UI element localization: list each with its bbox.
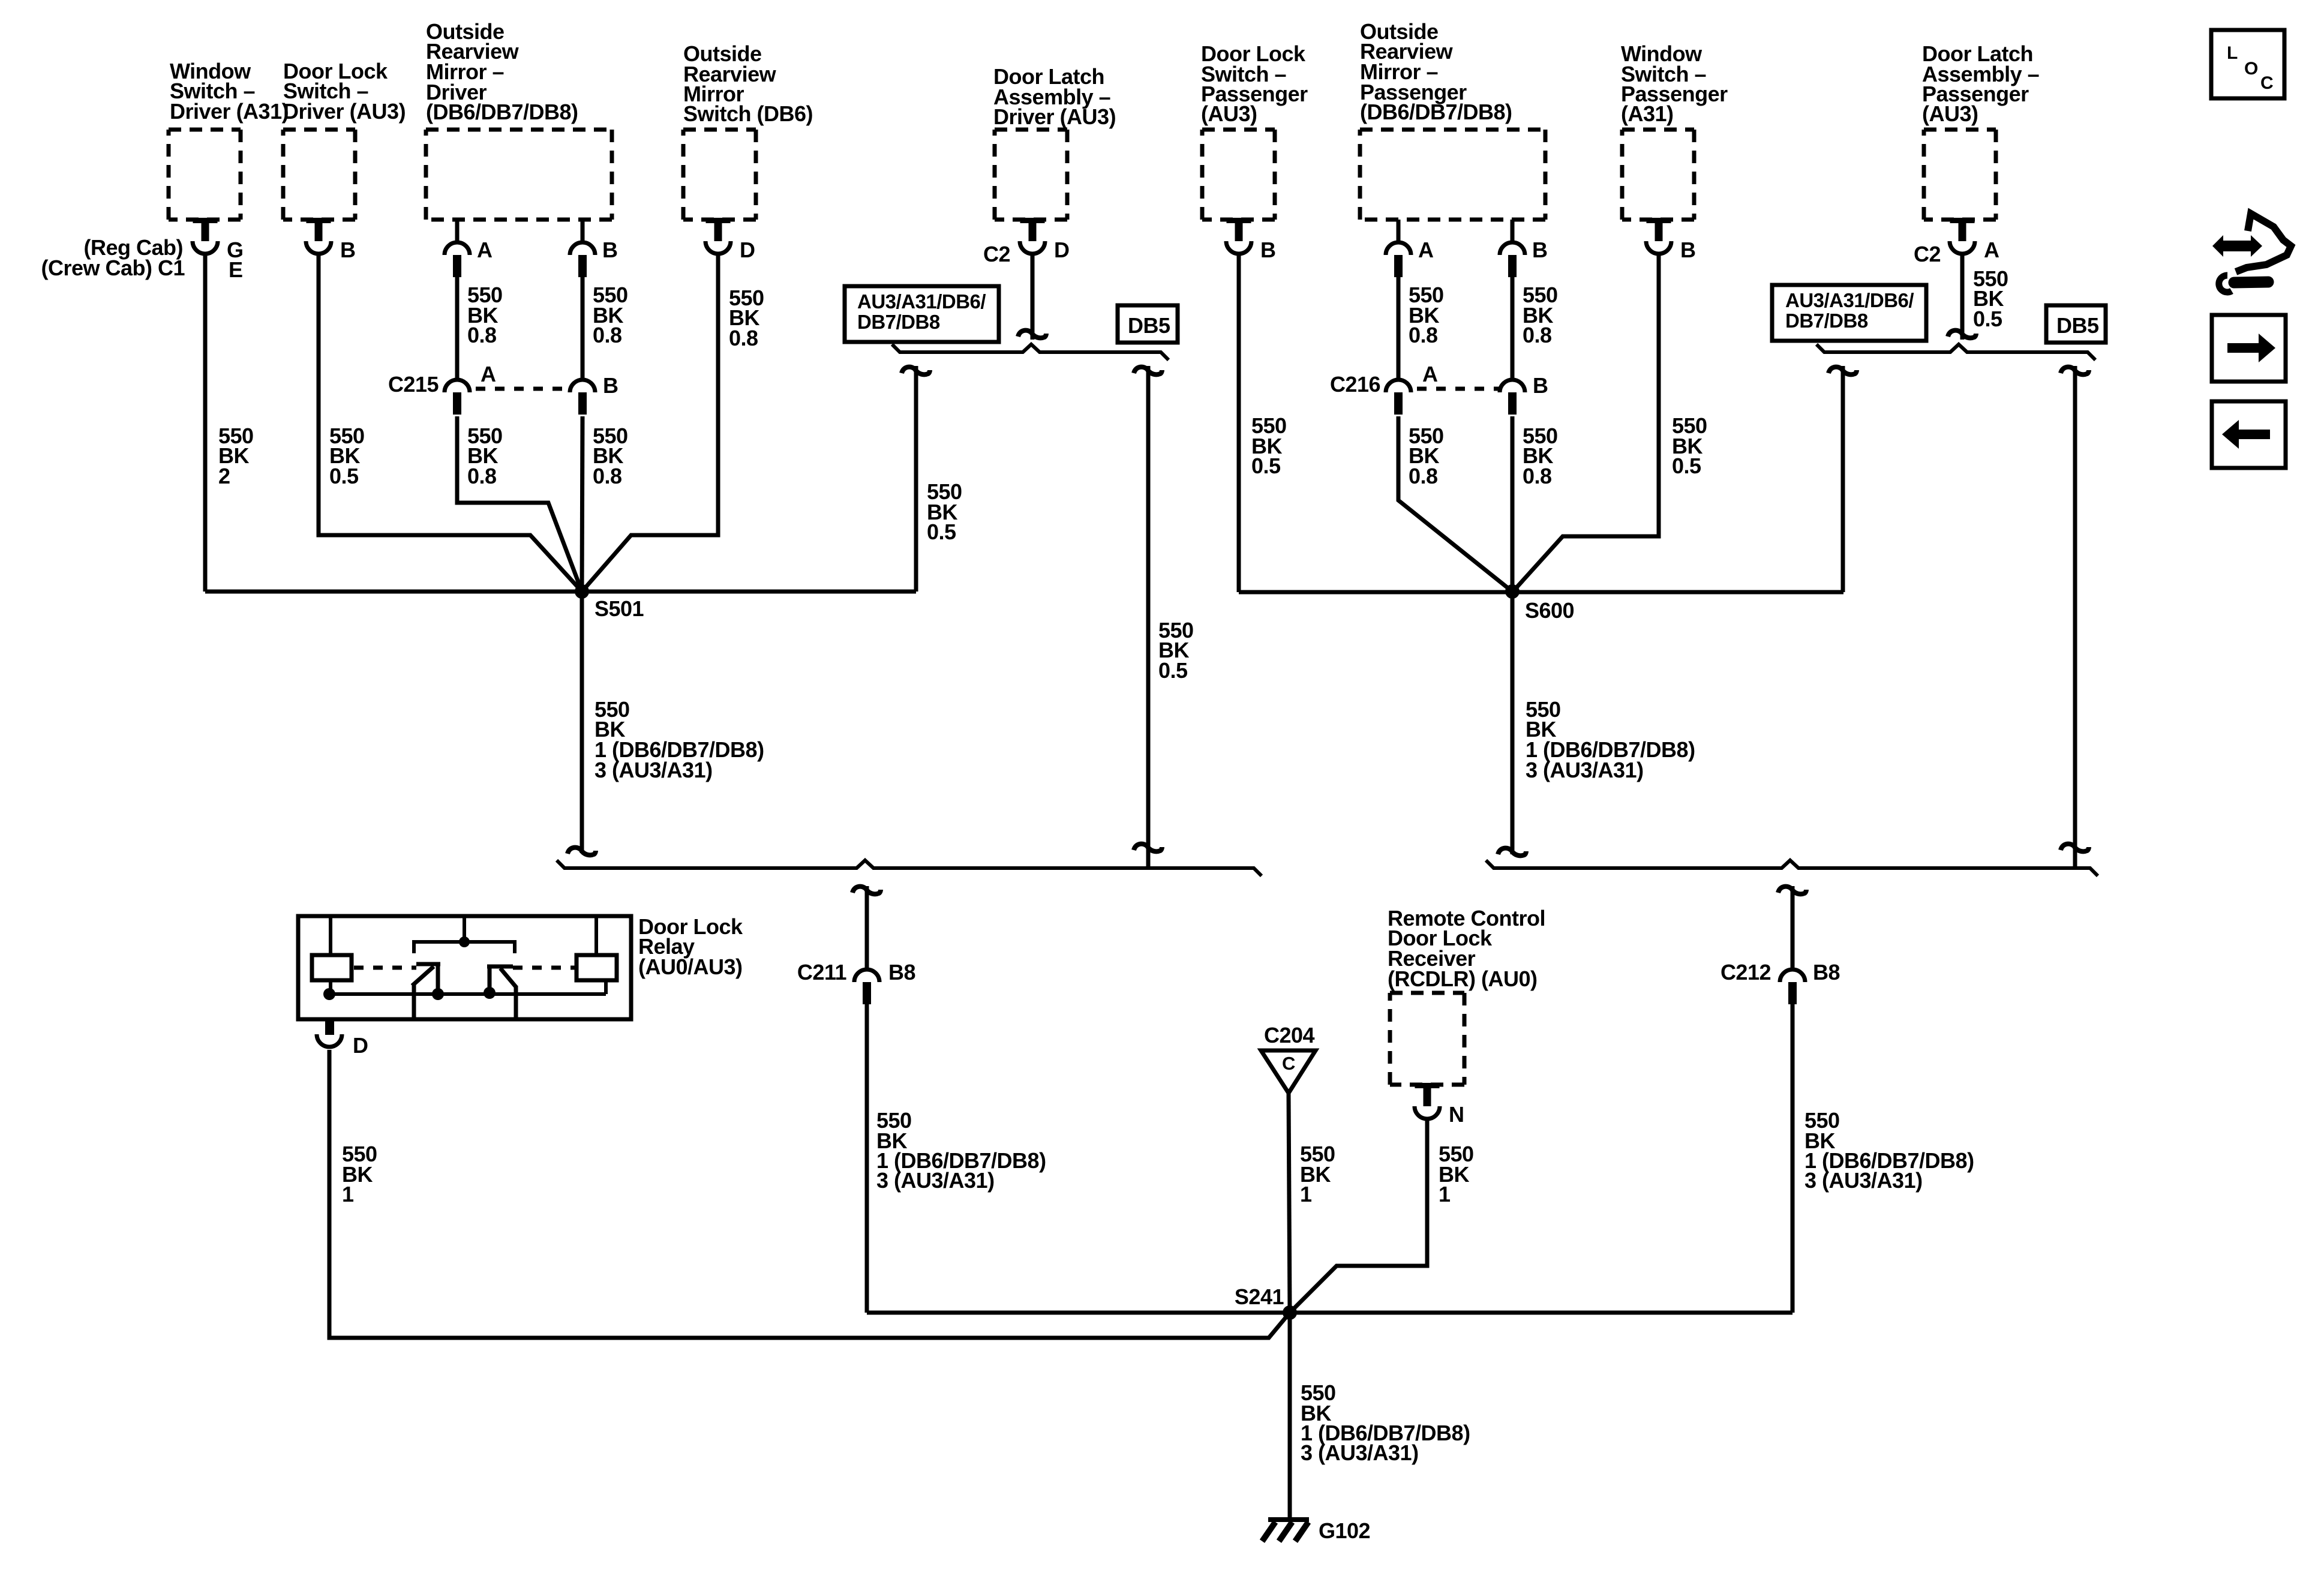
bus label text line1 (1785, 289, 1914, 311)
svg-text:0.8: 0.8 (1409, 323, 1438, 347)
wire label 550 BK 0.8 (467, 283, 503, 347)
bus label box DB5 (right) (2046, 305, 2106, 343)
wire: ORM passenger A to C216 (1397, 275, 1401, 380)
pin letter N (1449, 1102, 1464, 1127)
svg-text:B8: B8 (888, 960, 915, 984)
svg-text:0.5: 0.5 (1158, 658, 1188, 683)
svg-text:A: A (1984, 238, 1999, 262)
connector C211 terminal B8 (854, 969, 879, 1004)
svg-text:E: E (229, 257, 243, 282)
relay junction left (323, 988, 335, 1000)
pin N - RCDLR (1415, 1083, 1440, 1119)
ground G102 symbol (1262, 1520, 1309, 1541)
wire: ORM driver A to C215 (455, 275, 460, 380)
connector C212 label (1721, 960, 1771, 984)
label: Outside Rearview Mirror - Driver (426, 19, 578, 124)
C215 pin letter B (603, 373, 618, 398)
svg-text:(DB6/DB7/DB8): (DB6/DB7/DB8) (1360, 100, 1512, 124)
component box: Door Latch Assembly - Driver (995, 130, 1067, 220)
pin letter B (602, 238, 618, 262)
relay pin letter D (353, 1033, 368, 1058)
pin letter A (477, 238, 493, 262)
bus label box AU3/A31/DB6/DB7/DB8 (left) (845, 286, 999, 342)
svg-text:0.8: 0.8 (729, 326, 758, 350)
pin letter D (740, 238, 755, 262)
svg-text:(Crew Cab) C1: (Crew Cab) C1 (41, 256, 185, 280)
svg-text:A: A (477, 238, 493, 262)
C215 connector dashed link (476, 387, 564, 391)
icon: forward arrow box (2212, 315, 2286, 382)
pin A - Door Latch Assembly Passenger (C2) (1950, 218, 1975, 254)
icon: adjust/repair panel outline (2236, 214, 2291, 272)
splice S600 (1505, 584, 1520, 599)
C212 pin letter B8 (1813, 960, 1840, 984)
relay: right switch leg (514, 986, 518, 1017)
icon: LOC box (2211, 30, 2284, 98)
relay: right contact drop (488, 966, 492, 993)
svg-text:S501: S501 (594, 596, 644, 621)
wire: brace1R to S600 rail (1841, 366, 1845, 592)
pin letter A (1984, 238, 1999, 262)
svg-text:(DB6/DB7/DB8): (DB6/DB7/DB8) (426, 100, 578, 124)
relay: left coil to rail (329, 980, 332, 994)
wire: ORM passenger B to C216 (1511, 275, 1515, 380)
C215 pin letter A (481, 362, 496, 386)
svg-text:(AU3): (AU3) (1922, 101, 1978, 126)
relay K: Door Lock Relay box (298, 916, 631, 1019)
wire: brace1R to brace2R (DB5 path) (2073, 366, 2077, 868)
wire label 550 BK 0.8 (593, 283, 628, 347)
relay: left switch arm (412, 966, 434, 986)
svg-text:DB5: DB5 (1128, 313, 1170, 338)
connector C216 terminal A (1386, 380, 1411, 415)
hook: brace1R to S600 wire top (1828, 367, 1857, 375)
svg-text:G102: G102 (1319, 1518, 1370, 1543)
pin D - Outside Rearview Mirror Switch (705, 218, 731, 254)
wire label 550 BK 0.5 (1251, 413, 1287, 478)
component box: Outside Rearview Mirror - Driver (426, 130, 612, 220)
svg-text:2: 2 (218, 464, 230, 488)
hook: door latch passenger wire end (1948, 331, 1976, 338)
relay: right coil to rail (604, 980, 608, 994)
hook: brace1R right wire bottom (2061, 844, 2089, 852)
svg-text:DB7/DB8: DB7/DB8 (857, 311, 940, 333)
wire: window switch G to S501 rail (203, 254, 208, 592)
LOC letter L (2227, 43, 2238, 63)
svg-text:3 (AU3/A31): 3 (AU3/A31) (876, 1168, 995, 1193)
C211 pin letter B8 (888, 960, 915, 984)
svg-text:S600: S600 (1525, 598, 1574, 623)
svg-text:3 (AU3/A31): 3 (AU3/A31) (1804, 1168, 1923, 1193)
label: Door Latch Assembly - Driver (AU3) (993, 64, 1116, 129)
wire: ORM driver B to C215 (581, 275, 585, 380)
wire label 550 BK 1/3 (594, 697, 764, 782)
wire label 550 BK 1/3 (1526, 697, 1695, 782)
pin B - Door Lock Switch Driver (306, 218, 331, 254)
relay: left switch leg (412, 984, 416, 1017)
wire: S600 down to brace2R (1511, 592, 1515, 854)
wire: S600 rail (1239, 590, 1843, 595)
wire: brace1 to brace2 (DB5 path) (1146, 366, 1151, 868)
svg-text:(AU3): (AU3) (1201, 101, 1257, 126)
svg-text:B: B (1532, 238, 1548, 262)
hook: brace1 right wire bottom (1134, 844, 1162, 852)
wire: S241 to ground G102 (1288, 1313, 1292, 1520)
wire label 550 BK 0.5 (1158, 618, 1194, 683)
svg-text:A: A (481, 362, 496, 386)
pin G - Window Switch Driver (193, 218, 218, 254)
wire: S241 rail (867, 1311, 1792, 1315)
svg-text:0.5: 0.5 (1251, 454, 1281, 478)
svg-text:B: B (1260, 238, 1276, 262)
pin letter B (1532, 238, 1548, 262)
label: Window Switch - Passenger (A31) (1621, 41, 1728, 126)
relay: contact feed bracket (414, 942, 515, 953)
label: Door Lock Switch - Driver (AU3) (283, 59, 406, 124)
pin letter B (1260, 238, 1276, 262)
component box: RCDLR (1390, 993, 1464, 1085)
svg-text:3 (AU3/A31): 3 (AU3/A31) (1526, 758, 1644, 782)
wire label 550 BK 0.8 (729, 286, 764, 350)
svg-text:B: B (340, 238, 356, 262)
wire: relay D to S241 (329, 1050, 1290, 1338)
svg-text:B: B (1533, 373, 1548, 398)
wire label 550 BK 0.8 (1523, 424, 1558, 488)
svg-text:AU3/A31/DB6/: AU3/A31/DB6/ (1785, 289, 1914, 311)
wire: brace2 to C211 (865, 886, 869, 971)
bus brace 1 right (1816, 344, 2095, 360)
bus label text line2 (857, 311, 940, 333)
relay: dashed actuation line right (513, 966, 577, 970)
connector C216 terminal B (1500, 380, 1525, 415)
hook: brace1 right wire top (1134, 367, 1162, 375)
wire: C215 B to S501 (582, 416, 582, 592)
svg-text:B: B (1680, 238, 1696, 262)
svg-text:DB5: DB5 (2056, 313, 2099, 338)
relay: left coil (312, 955, 352, 980)
wire: RCDLR N to S241 (1290, 1117, 1427, 1313)
svg-text:DB7/DB8: DB7/DB8 (1785, 310, 1868, 332)
svg-text:L: L (2227, 43, 2238, 63)
hook: brace2 to C211 wire top (852, 887, 881, 894)
svg-text:S241: S241 (1235, 1284, 1284, 1309)
splice S501 (575, 584, 589, 599)
note (Crew Cab) C1 (41, 256, 185, 280)
pin letter G (227, 238, 244, 262)
pin B terminal - ORM Driver (570, 242, 595, 277)
svg-text:0.5: 0.5 (1973, 307, 2002, 331)
wire: C216 A to S600 (1398, 416, 1512, 592)
connector C215 label (388, 372, 439, 397)
wire: ORM switch D to S501 (582, 254, 718, 592)
svg-text:B: B (603, 373, 618, 398)
relay: right switch arm (500, 968, 516, 987)
splice label S241 (1235, 1284, 1284, 1309)
svg-text:Driver (AU3): Driver (AU3) (283, 99, 406, 124)
relay pin D cup (317, 1034, 342, 1047)
splice S241 (1283, 1305, 1297, 1320)
C204 letter C (1282, 1053, 1295, 1074)
relay: dashed actuation line left (354, 966, 416, 970)
pin A terminal - ORM Passenger (1386, 242, 1411, 277)
svg-text:(A31): (A31) (1621, 101, 1674, 126)
connector C215 terminal A (445, 380, 470, 415)
hook: S501 wire bottom (568, 848, 596, 855)
wire: C204 to S241 (1289, 1093, 1290, 1313)
wire: brace2R to C212 (1791, 886, 1795, 971)
bus label box AU3/A31/DB6/DB7/DB8 (right) (1772, 285, 1926, 341)
ground label G102 (1319, 1518, 1370, 1543)
wire: brace1 to S501 rail (914, 366, 918, 592)
connector C204 label (1264, 1023, 1315, 1047)
relay: right coil feed (594, 918, 598, 955)
wire: C216 B to S600 (1511, 416, 1515, 592)
svg-text:N: N (1449, 1102, 1464, 1127)
relay: right contact bar (487, 965, 513, 969)
svg-text:Switch (DB6): Switch (DB6) (683, 101, 813, 126)
icon: adjust/repair symbol double arrow (2212, 235, 2262, 257)
label: Outside Rearview Mirror - Passenger (1360, 19, 1512, 124)
svg-text:O: O (2244, 59, 2258, 79)
wire label 550 BK 0.5 (1973, 266, 2008, 331)
relay: right coil (577, 955, 617, 980)
wire label 550 BK 2 (218, 424, 254, 488)
svg-text:(RCDLR) (AU0): (RCDLR) (AU0) (1388, 966, 1537, 991)
note (Reg Cab) (84, 235, 184, 260)
svg-text:0.8: 0.8 (593, 464, 622, 488)
svg-text:0.8: 0.8 (1523, 323, 1552, 347)
DB5 text (2056, 313, 2099, 338)
wire label 550 BK 1/3 (1804, 1108, 1974, 1193)
wire label 550 BK 0.8 (1523, 283, 1558, 347)
pin stub A - ORM Driver (455, 220, 460, 241)
LOC letter O (2244, 59, 2258, 79)
splice label S501 (594, 596, 644, 621)
component box: Door Lock Switch - Passenger (1202, 130, 1275, 220)
connector C212 terminal B8 (1780, 969, 1805, 1004)
connector C2 label (driver) (983, 242, 1010, 266)
svg-text:A: A (1422, 362, 1438, 386)
wire: C212 down to S241 rail (1791, 1003, 1795, 1313)
DB5 text (1128, 313, 1170, 338)
svg-text:Driver (A31): Driver (A31) (170, 99, 289, 124)
wire: window switch passenger B to S600 (1512, 254, 1659, 592)
wire label 550 BK 1 (1300, 1142, 1335, 1206)
component box: Outside Rearview Mirror Switch (683, 130, 756, 220)
svg-text:D: D (740, 238, 755, 262)
label: Remote Control Door Lock Receiver (1388, 906, 1545, 991)
wire: C215 A to S501 (457, 416, 582, 592)
component box: Outside Rearview Mirror - Passenger (1360, 130, 1545, 220)
svg-text:1: 1 (1439, 1182, 1451, 1206)
svg-text:C2: C2 (983, 242, 1010, 266)
svg-text:C: C (2260, 73, 2273, 93)
pin stub A - ORM Passenger (1397, 220, 1401, 241)
pin letter E (229, 257, 243, 282)
pin B - Window Switch Passenger (1646, 218, 1671, 254)
relay junction right contact (484, 987, 496, 999)
wire label 550 BK 0.8 (1409, 283, 1444, 347)
svg-text:C215: C215 (388, 372, 439, 397)
pin D - Door Latch Assembly Driver (C2) (1020, 218, 1045, 254)
wire: S501 down to brace2 (580, 592, 584, 853)
pin stub B - ORM Driver (581, 220, 585, 241)
svg-text:C2: C2 (1914, 242, 1941, 266)
svg-text:0.5: 0.5 (1672, 454, 1701, 478)
svg-text:A: A (1418, 238, 1434, 262)
svg-text:0.5: 0.5 (927, 520, 956, 544)
wire label 550 BK 1/3 (1301, 1380, 1470, 1465)
wire: C211 down to S241 rail (865, 1003, 869, 1313)
pin letter B (1680, 238, 1696, 262)
connector C216 label (1330, 372, 1380, 397)
hook: brace2R to C212 wire top (1778, 887, 1806, 894)
bus label text line1 (857, 290, 986, 313)
bus brace 2 right (1486, 860, 2098, 876)
connector C2 label (passenger) (1914, 242, 1941, 266)
svg-text:0.5: 0.5 (329, 464, 359, 488)
svg-text:0.8: 0.8 (1523, 464, 1552, 488)
splice label S600 (1525, 598, 1574, 623)
svg-text:AU3/A31/DB6/: AU3/A31/DB6/ (857, 290, 986, 313)
wire label 550 BK 0.5 (1672, 413, 1707, 478)
label: Door Lock Relay (AU0/AU3) (638, 914, 743, 979)
wire label 550 BK 1/3 (876, 1108, 1046, 1193)
svg-text:0.8: 0.8 (467, 323, 497, 347)
wire label 550 BK 1 (1439, 1142, 1474, 1206)
svg-text:Driver (AU3): Driver (AU3) (993, 104, 1116, 129)
svg-text:0.8: 0.8 (1409, 464, 1438, 488)
bus label box DB5 (left) (1118, 305, 1178, 343)
C216 connector dashed link (1417, 387, 1500, 391)
relay junction center (459, 936, 470, 947)
wire label 550 BK 0.5 (329, 424, 365, 488)
svg-text:C212: C212 (1721, 960, 1771, 984)
pin letter D (1054, 238, 1070, 262)
C216 pin letter B (1533, 373, 1548, 398)
relay: center feed (463, 918, 466, 942)
hook: door latch wire end (1018, 331, 1046, 338)
icon: forward arrow (2227, 334, 2275, 362)
icon: back arrow box (2212, 401, 2286, 468)
pin letter A (1418, 238, 1434, 262)
hook: brace to S501 wire top (902, 367, 930, 375)
wire label 550 BK 0.8 (1409, 424, 1444, 488)
pin stub B - ORM Passenger (1511, 220, 1515, 241)
wire label 550 BK 0.8 (593, 424, 628, 488)
wire label 550 BK 1 (342, 1142, 377, 1206)
wire label 550 BK 0.8 (467, 424, 503, 488)
wire: door latch passenger A to bus brace (1960, 254, 1965, 340)
pin B - Door Lock Switch Passenger (1226, 218, 1251, 254)
relay: internal rail (329, 992, 606, 996)
svg-text:3 (AU3/A31): 3 (AU3/A31) (1301, 1440, 1419, 1465)
icon: back arrow (2222, 420, 2270, 449)
bus label text line2 (1785, 310, 1868, 332)
bus brace 2 left (557, 860, 1262, 876)
relay: left contact bar (416, 962, 440, 966)
component box: Door Lock Switch - Driver (283, 130, 355, 220)
svg-text:B: B (602, 238, 618, 262)
svg-text:C: C (1282, 1053, 1295, 1074)
svg-text:3 (AU3/A31): 3 (AU3/A31) (594, 758, 713, 782)
wire: door latch D to bus brace (1031, 254, 1035, 340)
svg-text:C211: C211 (797, 960, 847, 984)
svg-text:C204: C204 (1264, 1023, 1315, 1047)
connector C211 label (797, 960, 847, 984)
svg-text:B8: B8 (1813, 960, 1840, 984)
component box: Window Switch - Driver (169, 130, 241, 220)
hook: brace1R right wire top (2061, 367, 2089, 375)
bus brace 1 left (892, 344, 1169, 360)
wire: door lock switch passenger B to S600 rail (1237, 254, 1241, 592)
wire: S501 rail (205, 590, 916, 594)
label: Outside Rearview Mirror Switch (DB6) (683, 41, 813, 126)
label: Window Switch - Driver (A31) (170, 59, 289, 124)
C216 pin letter A (1422, 362, 1438, 386)
svg-text:1: 1 (342, 1182, 354, 1206)
pin B terminal - ORM Passenger (1500, 242, 1525, 277)
svg-text:1: 1 (1300, 1182, 1312, 1206)
LOC letter C (2260, 73, 2273, 93)
hook: S600 wire bottom (1498, 848, 1526, 856)
svg-text:D: D (353, 1033, 368, 1058)
icon: wrench (2219, 275, 2268, 292)
connector C204 triangle (1261, 1050, 1316, 1093)
wire: door lock switch B to S501 (319, 254, 582, 592)
svg-text:C216: C216 (1330, 372, 1380, 397)
component box: Door Latch Assembly - Passenger (1924, 130, 1996, 220)
relay junction left contact (432, 988, 444, 1000)
svg-text:D: D (1054, 238, 1070, 262)
svg-text:0.8: 0.8 (593, 323, 622, 347)
label: Door Latch Assembly - Passenger (AU3) (1922, 41, 2039, 126)
relay: left contact drop (436, 964, 440, 994)
pin A terminal - ORM Driver (445, 242, 470, 277)
label: Door Lock Switch - Passenger (AU3) (1201, 41, 1308, 126)
relay: left coil feed (329, 918, 332, 955)
relay pin D stem (325, 1019, 334, 1035)
svg-text:0.8: 0.8 (467, 464, 497, 488)
svg-text:(AU0/AU3): (AU0/AU3) (638, 954, 743, 979)
connector C215 terminal B (570, 380, 595, 415)
wire label 550 BK 0.5 (927, 479, 962, 544)
component box: Window Switch - Passenger (1622, 130, 1694, 220)
pin letter B (340, 238, 356, 262)
